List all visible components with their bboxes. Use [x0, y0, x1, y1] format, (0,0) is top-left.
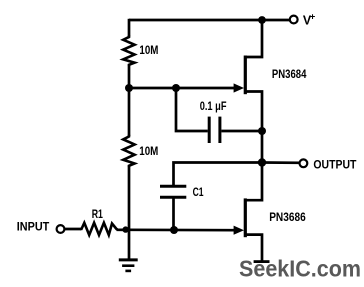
transistor PN3686 (JFET) [234, 163, 262, 262]
wire: 0.1uF right plate to PN3684 source line [221, 130, 262, 133]
terminal INPUT [57, 225, 65, 233]
svg-text:SeekIC.com: SeekIC.com [239, 256, 361, 282]
junction: input node at left branch [122, 226, 128, 232]
wire: top V+ rail [129, 19, 290, 22]
resistor 10M (lower) [123, 135, 134, 167]
capacitor 0.1uF plates [209, 117, 220, 143]
svg-text:10M: 10M [139, 45, 158, 57]
junction: 0.1uF / PN3684 source [258, 127, 266, 135]
PN3686 channel bar [244, 198, 247, 237]
svg-text:PN3686: PN3686 [269, 210, 306, 224]
wire: PN3684 source down to output node [261, 131, 264, 163]
resistor 10M (upper) [123, 36, 134, 66]
svg-text:0.1 μF: 0.1 μF [200, 101, 227, 113]
resistor R1 [80, 223, 118, 235]
PN3684 drain lead [245, 20, 262, 57]
terminal bar: PN3686 source return [254, 260, 270, 263]
junction: 0.1uF tap on gate line [172, 84, 180, 92]
wire: output node to OUTPUT terminal [262, 161, 300, 164]
node: OUTPUT junction [258, 158, 266, 166]
PN3686 drain lead [245, 163, 262, 201]
svg-text:C1: C1 [193, 187, 204, 199]
svg-text:OUTPUT: OUTPUT [313, 157, 357, 171]
junction: V+ rail / PN3684 drain [258, 16, 266, 24]
capacitor C1 plates [160, 186, 186, 197]
svg-text:R1: R1 [92, 209, 104, 221]
PN3684 gate arrowhead [234, 83, 244, 92]
junction: C1 bottom on input line [170, 226, 178, 234]
capacitor 0.1uF: left feed wire [176, 88, 208, 131]
PN3684 channel bar [244, 56, 247, 95]
svg-text:INPUT: INPUT [17, 222, 50, 234]
wire: output line left segment to C1 [174, 163, 263, 187]
node: PN3684 gate line junction on left branch [125, 84, 133, 92]
PN3686 gate arrowhead [234, 226, 244, 235]
svg-text:PN3684: PN3684 [272, 67, 307, 81]
wire: left branch between gate node and lower 10M [128, 88, 131, 136]
wire: left branch between lower 10M and input node [128, 166, 131, 232]
wire: input line from R1 to PN3686 gate [117, 228, 235, 231]
wire: left branch from input node down to ground [128, 230, 131, 259]
wire: C1 bottom plate to input line [172, 197, 175, 230]
wire: gate line of PN3684 [129, 87, 234, 90]
wire: INPUT terminal to R1 [64, 228, 81, 231]
wire: left branch top segment [128, 19, 131, 37]
ground [119, 260, 138, 271]
PN3686 source lead [245, 235, 262, 261]
wire: left branch between upper 10M and gate node [128, 65, 131, 91]
svg-text:10M: 10M [139, 146, 158, 158]
transistor PN3684 (JFET) [234, 20, 262, 131]
svg-text:+: + [310, 11, 316, 22]
PN3684 source lead [245, 92, 262, 132]
terminal V+ [290, 16, 298, 24]
terminal OUTPUT [300, 159, 308, 167]
